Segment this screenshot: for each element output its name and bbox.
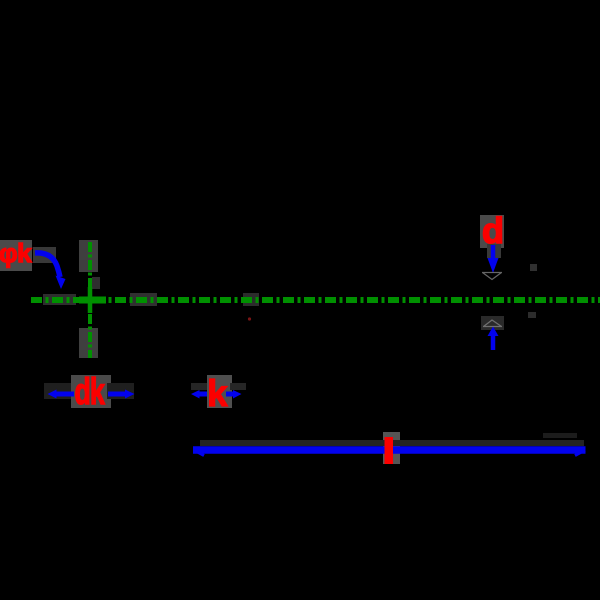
label background box phi-k — [0, 240, 32, 271]
faint band top right of length line — [543, 433, 577, 438]
svg-text:d: d — [482, 210, 504, 251]
label background box arc upper — [33, 247, 56, 263]
crosshair center blob — [79, 297, 106, 304]
k right dimension arrow — [226, 392, 234, 397]
angle arc arrow (blue) — [35, 253, 60, 277]
right barb — [575, 450, 585, 456]
svg-text:dk: dk — [75, 371, 105, 412]
optical axis (green dash-dot horizontal) — [31, 297, 600, 303]
dk right dimension arrow — [108, 392, 126, 397]
label background box l — [383, 432, 400, 464]
svg-text:k: k — [207, 373, 228, 414]
label background box axis x130 — [130, 293, 157, 306]
k left dimension arrow — [198, 392, 207, 397]
label background box dk left arrow — [44, 383, 71, 399]
label background box right below axis — [528, 312, 536, 318]
dk left dimension arrow — [56, 392, 74, 397]
label dk — [75, 371, 105, 412]
label background box d arrow stem — [487, 244, 501, 258]
label background box dk — [71, 375, 111, 408]
grating plane (green dashed vertical line) — [88, 242, 92, 358]
d lower dimension arrow (blue, pointing up) — [491, 335, 496, 350]
dim red dot on axis — [248, 317, 251, 320]
label background box k right arrow — [230, 383, 246, 390]
label background box axis x243 — [243, 293, 259, 306]
faint white arrowhead above axis — [482, 273, 502, 280]
label background box vertical line top — [79, 240, 98, 272]
length dimension line l (blue) — [193, 446, 586, 454]
label background box dk right arrow — [107, 383, 134, 399]
band above length line — [200, 440, 584, 446]
svg-text:φk: φk — [0, 238, 32, 268]
left barb — [194, 450, 204, 456]
label background box axis left — [43, 294, 76, 305]
label background box vertical line bottom — [79, 328, 98, 358]
label background box right of d arrow — [530, 264, 537, 271]
label l (red bar) — [385, 437, 394, 464]
label background box d — [480, 215, 504, 248]
d upper dimension arrow (blue, pointing down) — [491, 245, 496, 260]
label background box vertical line mid-right — [92, 277, 100, 289]
label background box below axis at d — [481, 316, 504, 330]
angle arc arrowhead — [56, 276, 66, 290]
label background box k — [207, 375, 232, 408]
label background box k left arrow — [191, 383, 207, 390]
faint white arrowhead below axis — [483, 320, 502, 327]
